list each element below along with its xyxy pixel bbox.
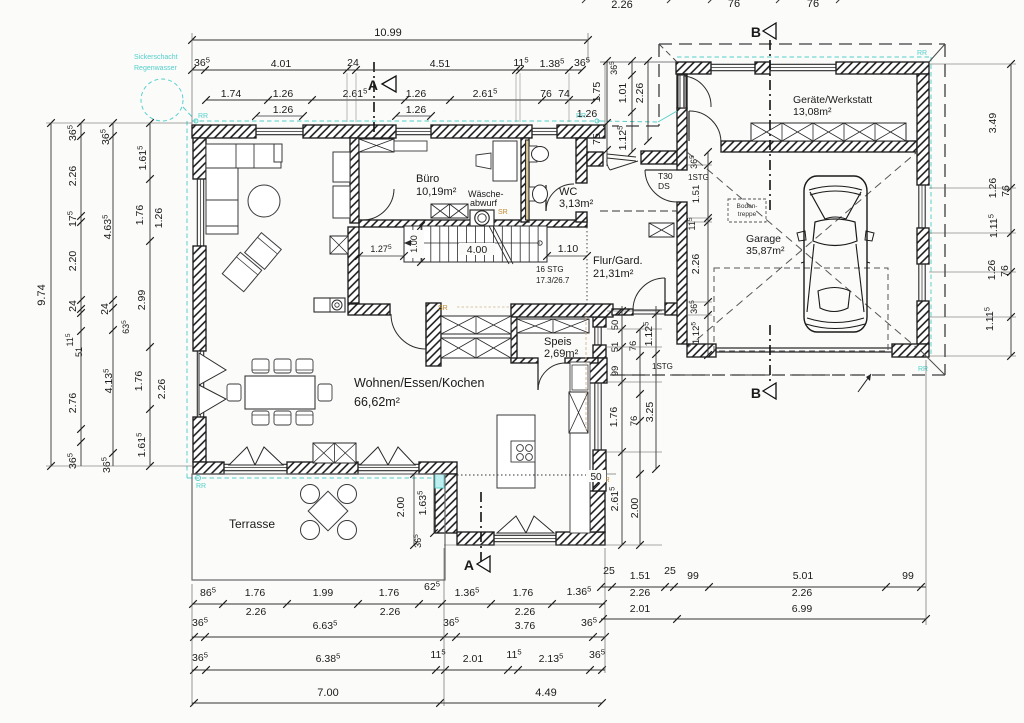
svg-text:25: 25 <box>603 565 615 577</box>
svg-text:Terrasse: Terrasse <box>229 517 275 531</box>
svg-text:treppe: treppe <box>738 211 757 218</box>
sickerschacht circle <box>141 79 183 121</box>
svg-text:T30: T30 <box>658 171 673 181</box>
svg-text:Boden-: Boden- <box>737 203 758 210</box>
garage bottom-right corner <box>892 344 929 357</box>
svg-text:76: 76 <box>1000 185 1012 197</box>
svg-text:4.51: 4.51 <box>430 58 451 70</box>
door wc <box>546 184 574 211</box>
buero west wall <box>350 138 359 223</box>
svg-text:1.51: 1.51 <box>691 185 702 204</box>
section A line bottom <box>480 492 482 562</box>
bottom wall pier 2 <box>419 462 457 474</box>
door speis <box>538 363 566 390</box>
top wall left segment <box>192 125 256 138</box>
left dim col B <box>80 123 82 466</box>
kitchen lower cabinets <box>441 338 511 358</box>
svg-text:2.01: 2.01 <box>463 653 484 665</box>
front door leaf <box>607 154 636 157</box>
svg-text:16 STG: 16 STG <box>536 265 564 274</box>
svg-text:76: 76 <box>728 0 740 10</box>
svg-text:99: 99 <box>902 570 914 582</box>
armchair 1 (rotated) <box>222 252 261 291</box>
bottom-left corner wall <box>193 462 224 474</box>
dining table <box>245 376 315 409</box>
extension lines top <box>191 33 193 125</box>
kitchen island <box>497 415 535 488</box>
svg-text:2.01: 2.01 <box>630 603 651 615</box>
east wall seg2 <box>593 345 606 358</box>
RR line garage east <box>930 57 932 357</box>
svg-text:3.25: 3.25 <box>644 402 656 423</box>
svg-text:2.26: 2.26 <box>630 587 651 599</box>
svg-text:1.26: 1.26 <box>273 88 294 100</box>
window triangle sw-2 <box>255 447 283 465</box>
bottom row 1 <box>192 603 605 605</box>
svg-text:DS: DS <box>658 181 670 191</box>
RR diagonal to garage <box>600 121 658 122</box>
svg-text:RR: RR <box>917 50 927 57</box>
tan dotted kitchen <box>457 306 511 308</box>
east extension lines <box>607 310 662 312</box>
entry south wall <box>641 151 677 164</box>
window werkstatt north 1 <box>711 63 755 65</box>
svg-text:1.01: 1.01 <box>617 83 629 104</box>
svg-text:6.99: 6.99 <box>792 603 813 615</box>
left extension lines <box>46 122 192 124</box>
svg-text:3,13m²: 3,13m² <box>559 198 594 210</box>
svg-text:3.49: 3.49 <box>987 113 999 134</box>
svg-text:B: B <box>751 385 761 401</box>
1stg line <box>610 374 860 376</box>
fridge <box>569 392 588 433</box>
svg-text:7.00: 7.00 <box>317 687 338 699</box>
window wc north <box>532 127 557 129</box>
svg-text:99: 99 <box>687 570 699 582</box>
window living west lower <box>196 351 198 417</box>
stair walking line <box>404 242 540 244</box>
speis top wall <box>511 304 613 317</box>
svg-text:2.26: 2.26 <box>246 606 267 618</box>
section A line top <box>373 62 375 133</box>
bottom extension lines <box>191 584 193 706</box>
svg-text:10.99: 10.99 <box>374 27 402 39</box>
terrace table diamond <box>308 491 348 531</box>
svg-text:Sickerschacht: Sickerschacht <box>134 54 178 61</box>
entry chain 2 <box>631 61 633 152</box>
dining chair top <box>296 359 313 373</box>
garage top wall east <box>836 62 929 74</box>
left wall middle <box>193 246 206 351</box>
car <box>797 176 874 332</box>
RR line house west <box>186 121 188 478</box>
svg-text:5.01: 5.01 <box>793 570 814 582</box>
round side table <box>248 185 280 217</box>
svg-text:Garage: Garage <box>746 233 781 245</box>
open-plan divider dotted <box>586 227 588 305</box>
svg-text:1.99: 1.99 <box>313 587 334 599</box>
bay south wall west <box>457 532 494 545</box>
dining chair right <box>318 384 332 401</box>
svg-text:76: 76 <box>807 0 819 10</box>
sofa L-shape <box>206 144 281 168</box>
terrace chair <box>338 485 357 504</box>
svg-text:76: 76 <box>628 341 639 352</box>
svg-text:A: A <box>368 77 378 93</box>
svg-text:RR: RR <box>198 113 208 120</box>
svg-text:1.51: 1.51 <box>630 570 651 582</box>
left dim col A <box>50 123 52 466</box>
bottom right extension <box>925 360 927 625</box>
RR gutter line house north <box>192 120 600 122</box>
kitchen west wall stub <box>426 303 441 366</box>
desk <box>493 141 517 181</box>
garage west wall corner <box>677 74 687 108</box>
laundry chute box <box>470 210 494 226</box>
garage west chain <box>707 152 709 355</box>
bottom right row 2 <box>601 618 926 620</box>
svg-text:A: A <box>464 557 474 573</box>
top wall segment 3 <box>431 125 532 138</box>
svg-text:Flur/Gard.: Flur/Gard. <box>593 255 643 267</box>
svg-text:1.26: 1.26 <box>986 260 998 281</box>
east wall of bay <box>590 491 605 532</box>
svg-text:1.26: 1.26 <box>273 104 294 116</box>
door werkstatt west <box>684 76 711 107</box>
svg-text:35,87m²: 35,87m² <box>746 245 785 257</box>
dining chair top <box>252 359 269 373</box>
svg-text:76: 76 <box>999 265 1011 277</box>
svg-text:4.49: 4.49 <box>535 687 556 699</box>
chain v1 east wall <box>621 306 623 545</box>
buero sideboard <box>359 139 394 152</box>
stair dim line <box>359 255 404 257</box>
dim row t4 <box>256 115 303 117</box>
garage west door opening <box>678 75 686 108</box>
svg-text:1.26: 1.26 <box>153 208 165 229</box>
kitchen east counter <box>570 362 590 533</box>
svg-text:1.76: 1.76 <box>133 371 145 392</box>
svg-text:1.76: 1.76 <box>379 587 400 599</box>
svg-text:2.26: 2.26 <box>792 587 813 599</box>
svg-text:1.76: 1.76 <box>134 205 146 226</box>
svg-text:51: 51 <box>74 347 84 357</box>
svg-text:2.00: 2.00 <box>395 497 407 518</box>
oven block <box>314 298 345 312</box>
svg-text:Regenwasser: Regenwasser <box>134 65 177 72</box>
lintel dashed over entry <box>600 210 677 212</box>
highboard <box>330 236 348 254</box>
kitchen north wall piece <box>348 304 390 315</box>
RR line house south <box>187 477 440 479</box>
parking space dashed <box>714 268 888 351</box>
window east small <box>594 327 596 345</box>
svg-text:2.00: 2.00 <box>629 498 641 519</box>
garage east wall lower <box>917 301 929 344</box>
dining chair left <box>227 384 241 401</box>
right dim col <box>1010 64 1012 356</box>
top wall segment 2 <box>303 125 396 138</box>
bottom wall pier <box>287 462 358 474</box>
bay west wall <box>435 474 457 533</box>
wc east wall upper <box>576 138 587 183</box>
svg-text:2.20: 2.20 <box>67 251 79 272</box>
window living south <box>358 463 419 465</box>
svg-text:1.26: 1.26 <box>406 88 427 100</box>
dim row t2 <box>192 69 582 71</box>
svg-text:2.26: 2.26 <box>380 606 401 618</box>
svg-text:1.74: 1.74 <box>221 88 242 100</box>
window triangle sw-1 <box>229 447 255 465</box>
window triangle west-2 <box>199 385 226 415</box>
svg-text:2.26: 2.26 <box>611 0 632 11</box>
bodentreppe dashed box <box>728 199 766 222</box>
door T30 house-garage <box>645 170 678 202</box>
door flur south <box>633 278 665 310</box>
svg-text:13,08m²: 13,08m² <box>793 106 832 118</box>
entry chain 3 <box>647 61 649 141</box>
svg-text:4.01: 4.01 <box>271 58 292 70</box>
garage east wall upper <box>917 74 929 185</box>
entry niche wall <box>587 152 603 166</box>
svg-text:1.76: 1.76 <box>513 587 534 599</box>
svg-text:21,31m²: 21,31m² <box>593 268 634 280</box>
living east wall lower <box>348 227 359 303</box>
svg-text:9.74: 9.74 <box>36 284 48 305</box>
dim row t3 <box>206 99 595 101</box>
svg-text:Wohnen/Essen/Kochen: Wohnen/Essen/Kochen <box>354 376 484 390</box>
speis south wall east <box>565 358 598 363</box>
svg-text:2.76: 2.76 <box>67 393 79 414</box>
svg-text:1.26: 1.26 <box>577 108 598 120</box>
section A dotted path <box>457 474 588 476</box>
window werkstatt north 2 <box>770 63 836 65</box>
buero-wc divider wall <box>521 138 529 222</box>
speis south wall west <box>511 358 538 363</box>
chain v3 <box>655 306 657 469</box>
svg-text:1.10: 1.10 <box>558 243 579 255</box>
east wall seg1 <box>593 317 606 327</box>
wardrobe <box>649 223 674 237</box>
svg-text:1.00: 1.00 <box>409 235 419 253</box>
garage west wall seg3 <box>677 202 687 344</box>
svg-text:SR: SR <box>438 305 448 312</box>
svg-text:SR: SR <box>498 209 508 216</box>
wc washbasin <box>529 146 537 162</box>
svg-text:24: 24 <box>347 57 359 69</box>
svg-text:2.26: 2.26 <box>515 606 536 618</box>
east wall seg3 <box>593 450 606 491</box>
speis west wall <box>511 317 517 360</box>
svg-text:Geräte/Werkstatt: Geräte/Werkstatt <box>793 94 872 106</box>
svg-text:2.26: 2.26 <box>156 379 168 400</box>
stair hall north band <box>359 220 587 227</box>
door garage-werkstatt <box>689 111 721 142</box>
chain v2 <box>639 329 641 545</box>
buero cabinet low <box>431 204 468 218</box>
svg-text:76: 76 <box>540 88 552 100</box>
bottom right row 1 <box>601 586 926 588</box>
svg-text:Büro: Büro <box>416 173 439 185</box>
garage top wall pier <box>755 62 770 74</box>
buero shelf <box>394 141 427 151</box>
window buero north <box>396 127 431 129</box>
window east large <box>594 383 596 450</box>
svg-text:2.99: 2.99 <box>136 290 148 311</box>
sideboard south wall <box>313 443 356 463</box>
window garage east 1 <box>918 185 920 228</box>
roof hip corner diagonals <box>659 44 677 62</box>
garage top wall west corner <box>676 62 711 74</box>
werkstatt cabinets <box>751 123 906 141</box>
svg-text:17.3/26.7: 17.3/26.7 <box>536 276 570 285</box>
garage bottom-left corner <box>687 344 716 357</box>
stair break line <box>487 222 509 264</box>
svg-text:RR: RR <box>196 483 206 490</box>
bay south wall east <box>556 532 605 545</box>
wc toilet <box>529 187 535 201</box>
svg-text:1STG: 1STG <box>652 362 673 371</box>
bay dim 1.63 <box>433 474 435 533</box>
installation strip wc <box>526 140 530 220</box>
svg-text:75: 75 <box>591 133 603 145</box>
svg-text:24: 24 <box>99 303 111 315</box>
garage roof hip dashed X <box>687 152 917 348</box>
window living west upper <box>196 179 198 246</box>
desk chair <box>476 153 491 169</box>
kitchen upper cabinets <box>441 316 511 334</box>
bottom row 3 <box>192 669 605 671</box>
garage east wall mid <box>917 228 929 264</box>
door living-buero <box>362 189 394 220</box>
speis shelves <box>517 319 589 333</box>
window bay south <box>494 534 556 536</box>
left dim col C <box>112 123 114 466</box>
section B line top <box>769 40 771 212</box>
entry chain 1 <box>606 61 608 166</box>
svg-text:2.26: 2.26 <box>634 83 646 104</box>
svg-text:25: 25 <box>664 565 676 577</box>
dining chair top <box>274 359 291 373</box>
window triangle west-1 <box>199 353 226 385</box>
svg-text:10,19m²: 10,19m² <box>416 186 457 198</box>
bottom row 2 <box>192 636 605 638</box>
svg-text:B: B <box>751 24 761 40</box>
garage roof outline dashed <box>659 43 945 45</box>
svg-text:WC: WC <box>559 186 577 198</box>
svg-text:24: 24 <box>67 300 79 312</box>
svg-text:2,69m²: 2,69m² <box>544 348 579 360</box>
terrace outline <box>192 474 445 580</box>
garage chain extensions <box>688 164 712 166</box>
dim row 10.99 <box>192 39 588 41</box>
svg-text:50: 50 <box>590 472 602 483</box>
door flur-kitchen <box>391 314 426 349</box>
left wall upper <box>193 138 206 179</box>
svg-text:2.26: 2.26 <box>67 166 79 187</box>
cooktop <box>511 441 535 462</box>
svg-text:RR: RR <box>918 366 928 373</box>
window garage east 2 <box>918 264 920 301</box>
svg-text:1.76: 1.76 <box>608 407 620 428</box>
window triangle bay-2 <box>526 516 554 533</box>
section B line bottom <box>769 325 771 385</box>
garage west wall seg2 <box>677 108 687 170</box>
svg-text:66,62m²: 66,62m² <box>354 395 400 409</box>
50 label east wall <box>586 470 606 482</box>
terrace chair <box>301 485 320 504</box>
bottom row 4 <box>192 702 602 704</box>
top wall segment 4 <box>557 125 605 138</box>
garage-werkstatt divider <box>721 141 917 152</box>
flur south wall west <box>612 309 633 315</box>
svg-text:1.75: 1.75 <box>591 82 603 103</box>
wc east wall lower stub <box>576 212 587 222</box>
flur south wall corner <box>665 303 678 315</box>
svg-text:Speis: Speis <box>544 336 572 348</box>
garage sectional door <box>716 347 892 349</box>
svg-text:1.76: 1.76 <box>245 587 266 599</box>
terrace chair <box>338 521 357 540</box>
svg-text:4.00: 4.00 <box>467 244 488 256</box>
armchair 2 (rotated) <box>245 233 282 270</box>
window living north <box>256 127 303 129</box>
svg-text:3.76: 3.76 <box>515 620 536 632</box>
left dim col D <box>149 123 151 466</box>
svg-text:74: 74 <box>558 88 570 100</box>
window triangle s-2 <box>388 447 415 465</box>
east wall block <box>587 358 607 383</box>
stair width dim <box>420 226 422 262</box>
RR line garage top <box>677 56 931 58</box>
terrace chair <box>301 521 320 540</box>
terrace corner dim 2.00 <box>413 474 415 545</box>
stairs <box>404 226 547 262</box>
window triangle s-1 <box>360 447 388 465</box>
svg-text:76: 76 <box>629 416 640 427</box>
flur south door sill <box>633 309 665 311</box>
right extension lines <box>929 63 1016 65</box>
shelf units on buero wall <box>333 152 350 182</box>
RR corner mark bay <box>435 474 444 488</box>
svg-text:abwurf: abwurf <box>470 198 498 208</box>
window triangle bay-1 <box>497 516 526 533</box>
1stg step line arrow <box>858 374 871 392</box>
left wall lower <box>193 417 206 462</box>
svg-text:1.26: 1.26 <box>406 104 427 116</box>
svg-text:2.26: 2.26 <box>690 254 702 275</box>
tan service line <box>585 312 587 430</box>
window living south-west <box>224 463 287 465</box>
svg-text:1STG: 1STG <box>688 173 709 182</box>
